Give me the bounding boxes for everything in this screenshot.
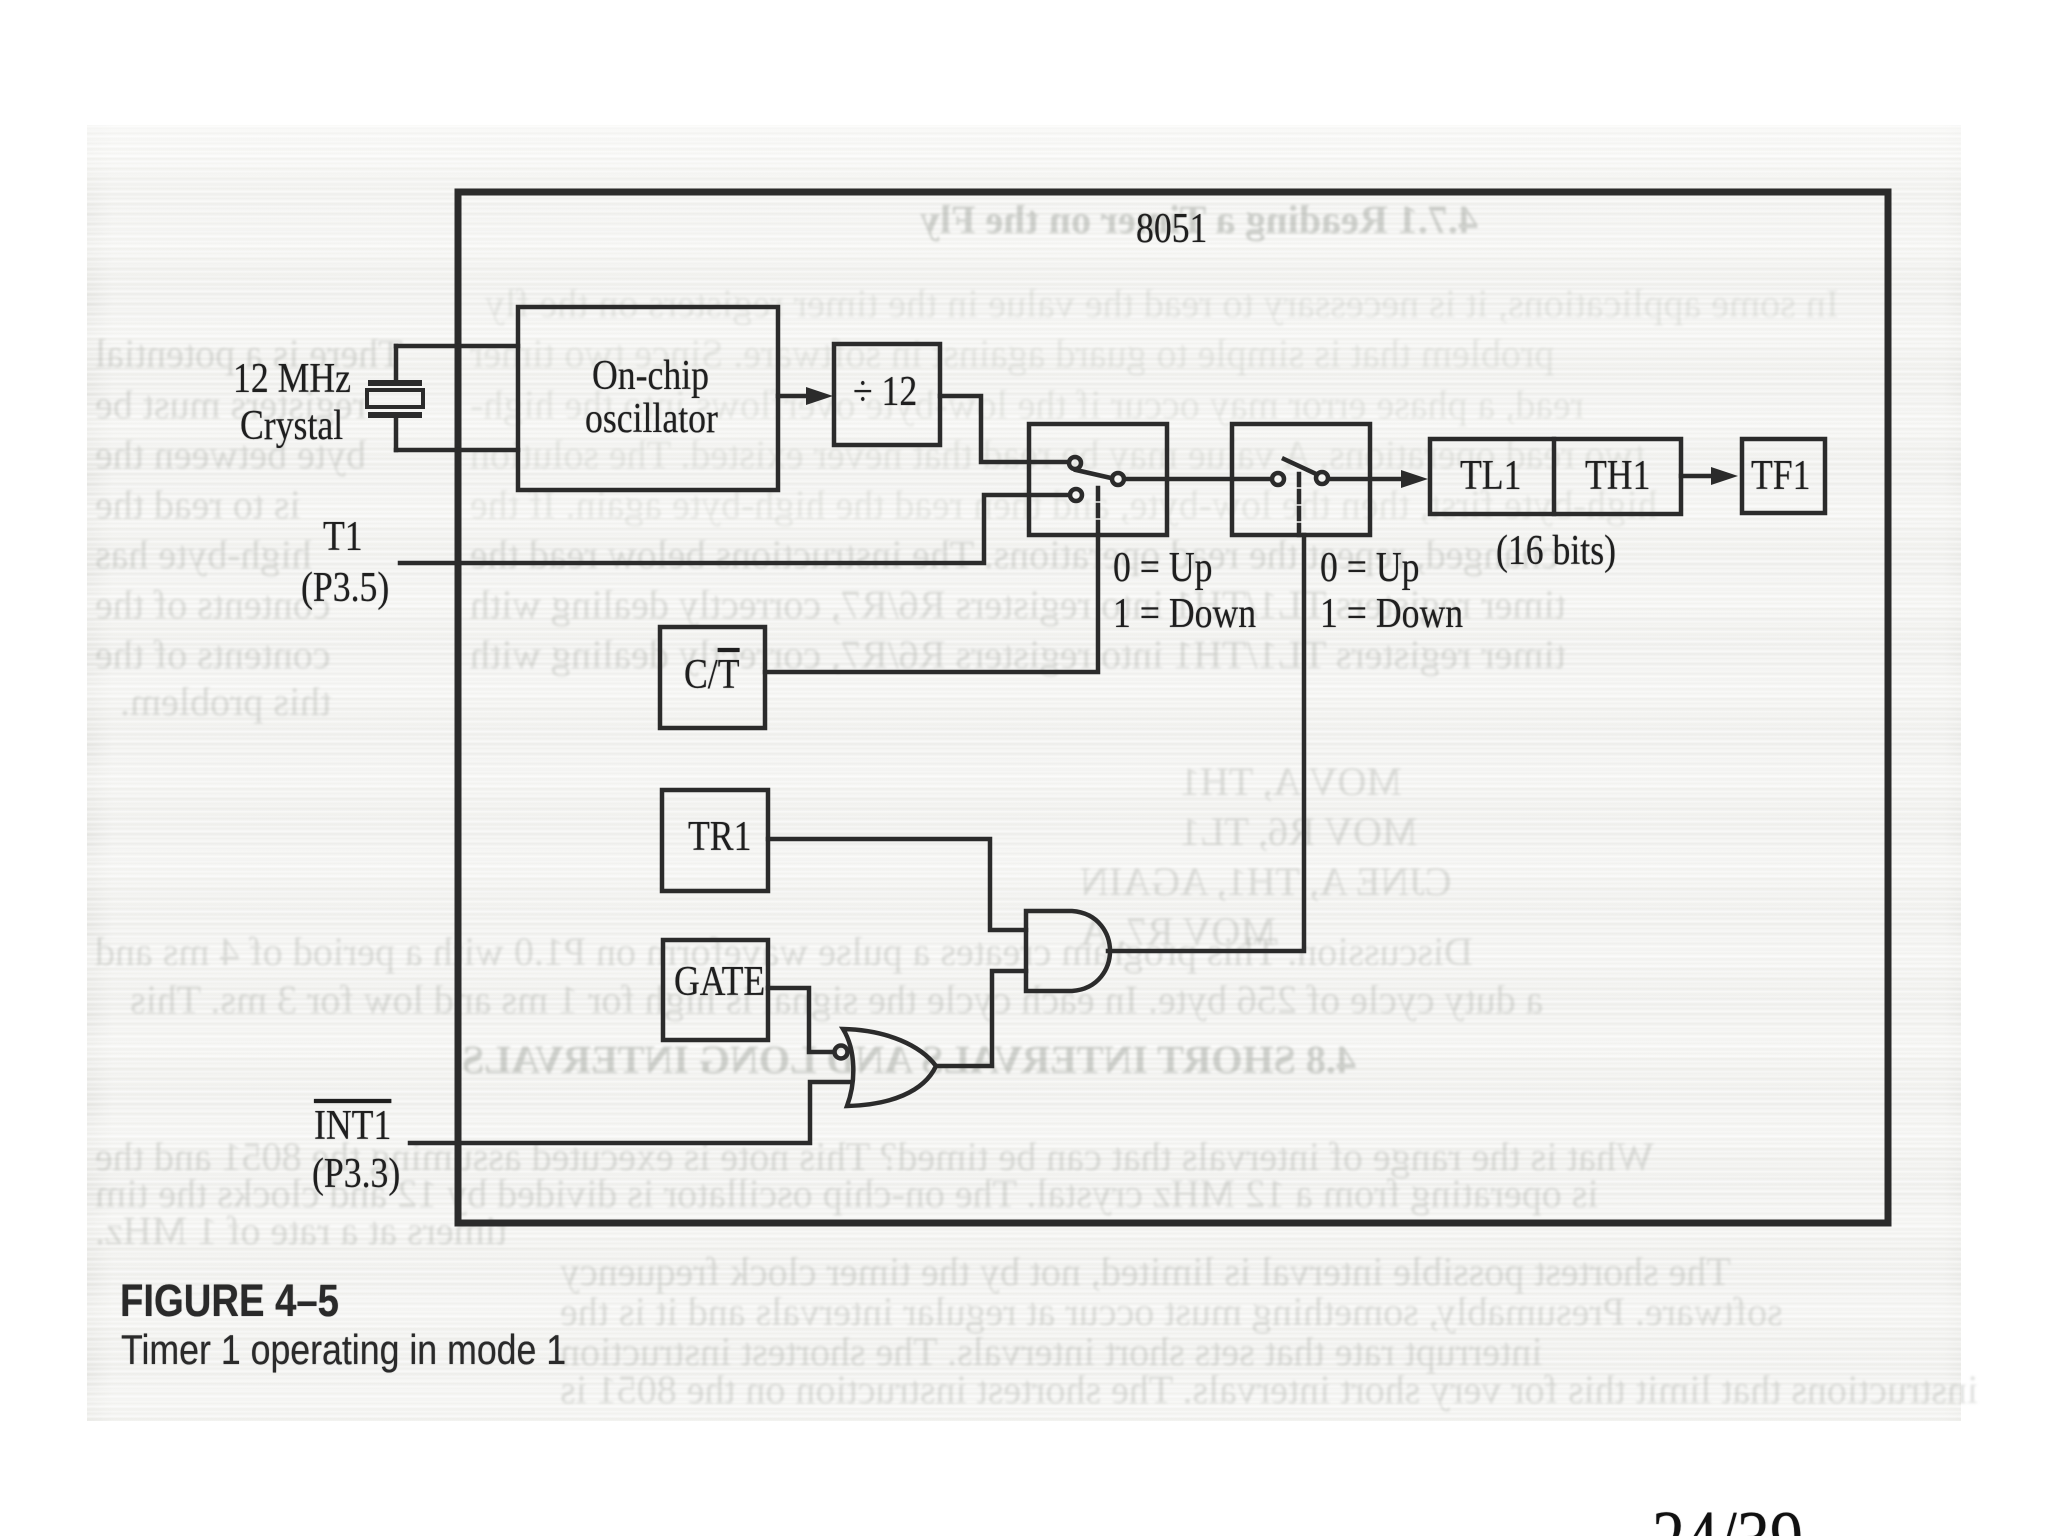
8051 chip boundary box: [458, 192, 1888, 1223]
switch S2 left contact: [1272, 473, 1284, 485]
wire T1 input to switch S1 lower throw: [400, 495, 1068, 563]
crystal Y1 top plate: [371, 380, 419, 386]
label TF1: [1751, 455, 1811, 497]
wire AND gate output to switch S2 control: [1108, 535, 1304, 951]
wire switch S1 pole to switch S2: [1125, 477, 1271, 482]
crystal Y1 bottom wire: [396, 448, 518, 453]
crystal Y1 body: [367, 390, 423, 407]
caption FIGURE 4-5: [120, 1278, 339, 1323]
TR1 run control box: [662, 790, 768, 891]
switch S1 lever: [1076, 470, 1111, 478]
arrowhead into TL1: [1401, 470, 1428, 488]
switch S1 box: [1029, 424, 1167, 535]
NOR gate input bubble: [835, 1046, 848, 1059]
label 0 = Up for switch S1: [1113, 547, 1212, 589]
label 0 = Up for switch S2: [1320, 547, 1419, 589]
page number 24/39: [1652, 1500, 1803, 1536]
label 8051: [1136, 208, 1207, 250]
wire GATE to NOR bubble: [768, 988, 832, 1052]
label TR1: [688, 816, 751, 858]
wire NOR output to AND gate bottom input: [936, 971, 1026, 1066]
label C/T with overline on T: [684, 654, 740, 696]
label On-chip: [592, 355, 709, 397]
TF1 flag box: [1742, 439, 1825, 513]
switch S1 pole contact: [1112, 473, 1124, 485]
crystal Y1 top wire: [396, 344, 518, 349]
label Crystal: [240, 405, 343, 447]
GATE box: [663, 940, 768, 1040]
label T1: [323, 516, 363, 558]
arrowhead into divide-by-12: [806, 387, 833, 405]
label 1 = Down for switch S2: [1320, 593, 1463, 635]
switch S1 control dashed line: [1096, 488, 1101, 535]
wire oscillator output: [778, 394, 814, 399]
TL1 TH1 register box: [1430, 439, 1681, 514]
label (P3.3): [312, 1153, 400, 1195]
crystal Y1 top stub: [394, 346, 399, 381]
wire switch S2 to TL1: [1329, 477, 1409, 482]
label (16 bits): [1496, 530, 1616, 572]
label divide by 12: [853, 371, 917, 413]
label (P3.5): [301, 567, 389, 609]
on-chip oscillator box: [518, 307, 778, 490]
label TH1: [1585, 455, 1650, 497]
label oscillator: [585, 398, 718, 440]
label INT1 with overline: [314, 1105, 391, 1147]
arrowhead into TF1: [1711, 467, 1738, 485]
wire divide-by-12 to switch S1 upper throw: [940, 396, 1067, 462]
switch S2 right contact: [1316, 472, 1328, 484]
switch S2 box: [1232, 424, 1370, 535]
label 1 = Down for switch S1: [1113, 593, 1256, 635]
wire INT1 input to NOR lower input: [410, 1082, 852, 1143]
wire C/T select to switch S1 control: [765, 535, 1098, 672]
switch S2 lever: [1284, 459, 1314, 473]
NOR gate U2: [843, 1029, 936, 1106]
crystal Y1 bottom plate: [371, 412, 419, 418]
crystal Y1 bottom stub: [394, 417, 399, 450]
wire TH1 to TF1: [1681, 474, 1719, 479]
caption Timer 1 operating in mode 1: [121, 1329, 566, 1371]
label 12 MHz: [233, 358, 351, 400]
AND gate U1: [1026, 911, 1110, 991]
label GATE: [674, 961, 765, 1003]
C/T select box: [660, 627, 765, 728]
switch S2 control dashed line: [1297, 474, 1302, 535]
divide-by-12 box: [834, 344, 940, 445]
label TL1: [1460, 455, 1521, 497]
TL1 TH1 divider: [1552, 439, 1557, 514]
wire TR1 to AND gate top input: [768, 839, 1026, 930]
ghost bleed-through text: [0, 0, 2048, 1]
switch S1 lower throw contact: [1070, 489, 1082, 501]
switch S1 upper throw contact: [1069, 457, 1081, 469]
